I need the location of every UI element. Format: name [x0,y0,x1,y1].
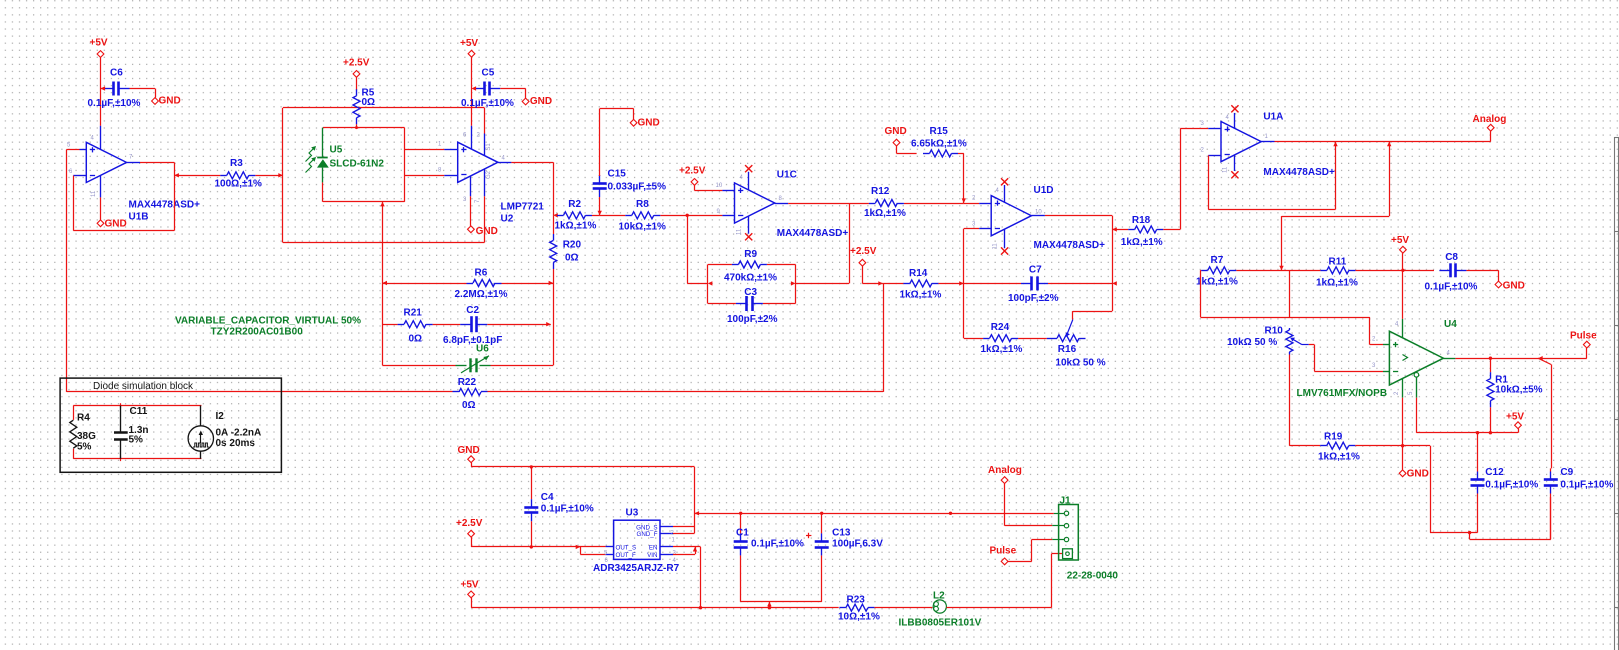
svg-text:GND: GND [159,96,181,107]
svg-text:+2.5V: +2.5V [850,246,877,257]
wire U2 +in [405,149,458,151]
svg-text:R22: R22 [458,377,477,388]
svg-text:10kΩ,±5%: 10kΩ,±5% [1495,384,1543,395]
wire R16 wiper path [1073,311,1113,320]
svg-text:R19: R19 [1324,432,1343,443]
R8 labels [619,199,667,232]
power terminal +2.5V (R5) [343,58,370,91]
svg-text:100pF,±2%: 100pF,±2% [727,314,778,325]
R19 labels [1318,432,1360,463]
op-amp U1A [1221,122,1261,162]
svg-text:0Ω: 0Ω [362,97,376,108]
capacitor C8 [1439,263,1498,281]
svg-text:C12: C12 [1485,467,1504,478]
C1 labels [736,527,804,549]
R14 labels [900,268,942,301]
U1A -in wire [1208,142,1337,210]
junction C1 rail [695,511,700,515]
RC box verticals [708,265,796,304]
C5 labels [461,68,514,109]
svg-text:6.8pF,±0.1pF: 6.8pF,±0.1pF [443,335,502,346]
ground GND (C6) [152,96,181,107]
C13 plus [806,533,811,538]
vertical U5 ladder [382,202,384,365]
svg-text:1kΩ,±1%: 1kΩ,±1% [1318,452,1360,463]
C4 labels [541,492,594,515]
C8 labels [1425,252,1478,293]
svg-text:11: 11 [91,190,97,197]
ground GND (C8) [1495,281,1525,292]
R5 labels [362,88,376,108]
diode block box [60,378,281,472]
svg-text:R7: R7 [1211,255,1224,266]
svg-text:11: 11 [1223,166,1229,173]
resistor R23 [839,604,932,611]
svg-text:10kΩ 50 %: 10kΩ 50 % [1055,358,1105,369]
wire L2 to J1 [1052,554,1063,608]
U3 labels [593,508,680,575]
svg-text:U2: U2 [501,214,514,225]
svg-text:GND: GND [476,226,498,237]
junction R18 [1112,227,1117,231]
power terminal +2.5V (R14) [850,246,883,285]
U1D pin labels [972,188,1042,250]
svg-text:TZY2R200AC01B00: TZY2R200AC01B00 [211,327,304,338]
R21 labels [404,308,423,345]
+5V row U4 [1416,431,1518,434]
U3 pins right [660,527,673,555]
R16 labels [1055,344,1105,369]
power terminal +2.5V (U3) [456,518,483,547]
U4 output [1443,358,1586,360]
svg-text:U1B: U1B [129,212,149,223]
svg-text:+5V: +5V [1391,235,1409,246]
U1C pin labels [716,175,783,235]
resistor R15 [923,150,964,157]
resistor R4 [70,413,96,453]
svg-text:1kΩ,±1%: 1kΩ,±1% [1316,278,1358,289]
svg-text:U1A: U1A [1263,112,1283,123]
svg-text:GND: GND [1503,281,1525,292]
wire U1A tap down [1279,142,1389,271]
wire U1B +in [67,149,87,151]
OUT_F jog [580,547,605,555]
current source I2 [188,406,261,459]
photodiode U5 [317,128,329,183]
U6 label [476,344,489,355]
resistor R1 [1487,358,1494,433]
potentiometer R10 [1286,328,1390,372]
svg-text:S1: S1 [486,143,492,151]
resistor R6 [382,280,553,287]
wire U1B feedback [73,162,174,230]
svg-text:1kΩ,±1%: 1kΩ,±1% [555,221,597,232]
svg-text:R14: R14 [909,268,928,279]
wire left tall [66,150,68,392]
U1B pin labels [67,135,133,197]
capacitor C11 [114,406,149,459]
svg-text:0A -2.2nA: 0A -2.2nA [216,428,262,439]
U1C top pin [745,165,752,190]
capacitor C4 [524,467,538,547]
wire R10 top [1289,270,1291,317]
svg-text:U6: U6 [476,344,489,355]
svg-text:OUT_S: OUT_S [616,545,637,552]
resistor R19 [1314,442,1403,449]
svg-text:R2: R2 [568,199,581,210]
svg-text:R10: R10 [1265,326,1284,337]
R15 labels [911,126,967,149]
U4 pin labels [1372,322,1451,396]
svg-text:C3: C3 [744,287,757,298]
wire R14 node down [883,283,885,392]
svg-text:38G: 38G [77,431,96,442]
C13 labels [832,527,883,549]
R12 labels [864,186,906,219]
svg-text:R16: R16 [1058,344,1077,355]
U1B pin4 lead [100,126,102,150]
svg-text:MAX4478ASD+: MAX4478ASD+ [1263,167,1335,178]
C15 labels [608,168,667,192]
wire U1B -in lead [73,175,86,177]
terminal Pulse (top) [1570,331,1597,359]
U2 pin7/G2 [484,169,486,242]
svg-text:C1: C1 [736,527,749,538]
resistor R2 [557,212,600,219]
U3 pin numbers [604,531,677,565]
U5 box [323,126,405,202]
svg-text:1kΩ,±1%: 1kΩ,±1% [864,208,906,219]
wire R11-C8 [1401,269,1434,272]
R7 labels [1196,255,1238,287]
svg-text:VARIABLE_CAPACITOR_VIRTUAL 50: VARIABLE_CAPACITOR_VIRTUAL 50% [175,316,361,327]
svg-text:ILBB0805ER101V: ILBB0805ER101V [899,618,982,629]
resistor R12 [849,200,964,207]
svg-text:+5V: +5V [90,38,108,49]
svg-text:U4: U4 [1444,319,1457,330]
wire to U1D + [964,203,991,205]
U1A labels [1263,112,1335,179]
junction U1B out [174,173,179,177]
svg-text:ADR3425ARJZ-R7: ADR3425ARJZ-R7 [593,563,680,574]
U2 pin3 gnd [470,176,472,226]
U1D bottom pin [1001,229,1008,255]
junction R1 top [1489,357,1492,360]
svg-text:0s 20ms: 0s 20ms [216,438,256,449]
guard ring box [283,108,485,243]
U2 pin2/S1 [484,108,486,156]
gnd row U3 [471,465,694,468]
ground GND (R15) [885,126,917,153]
svg-text:0.1µF,±10%: 0.1µF,±10% [1425,281,1478,292]
svg-text:U5: U5 [330,145,343,156]
C3 labels [727,287,778,325]
resistor R20 [550,215,557,283]
svg-text:R21: R21 [404,308,423,319]
svg-text:R6: R6 [475,267,488,278]
U1D -in wire [964,229,992,339]
wire R18 up [1180,129,1221,230]
svg-text:1kΩ,±1%: 1kΩ,±1% [1196,276,1238,287]
svg-text:0Ω: 0Ω [462,400,476,411]
svg-text:0Ω: 0Ω [409,334,423,345]
svg-text:1kΩ,±1%: 1kΩ,±1% [1121,237,1163,248]
wire gnd chain [1403,446,1478,533]
U1C output [775,203,850,284]
svg-text:EN: EN [649,545,658,552]
U2 labels [501,202,545,225]
wire C9 bottom path [1470,497,1551,540]
connector J1 [1052,505,1078,561]
diagonal wire [1538,358,1551,468]
svg-text:R15: R15 [930,126,949,137]
svg-text:+2.5V: +2.5V [679,166,706,177]
svg-text:+5V: +5V [460,38,478,49]
R6 labels [455,267,508,300]
svg-text:C4: C4 [541,492,554,503]
sheet border [1614,137,1619,650]
svg-text:Pulse: Pulse [990,545,1017,556]
svg-text:10kΩ,±1%: 10kΩ,±1% [619,221,667,232]
rail C1 bottom [741,602,822,608]
svg-text:0.033µF,±5%: 0.033µF,±5% [608,182,667,193]
svg-text:C13: C13 [832,527,851,538]
C12 labels [1485,467,1538,491]
R3 labels [215,158,263,189]
svg-text:Pulse: Pulse [1570,331,1597,342]
terminal Analog (J1) [988,465,1052,526]
svg-text:J1: J1 [1060,495,1072,506]
svg-text:GND: GND [885,126,907,137]
svg-text:470kΩ,±1%: 470kΩ,±1% [724,273,777,284]
wire -in vert U1C [687,215,708,283]
svg-text:U1D: U1D [1034,185,1054,196]
resistor R24 [964,335,1047,342]
resistor R22 [67,388,884,395]
svg-text:LMP7721: LMP7721 [501,202,545,213]
svg-text:L2: L2 [933,591,945,602]
junction U5 box bottom [380,202,384,207]
U2 output [498,162,554,215]
resistor R11 [1282,267,1403,274]
J1 labels [1060,495,1119,581]
svg-text:LMV761MFX/NOPB: LMV761MFX/NOPB [1297,388,1388,399]
capacitor C6 [101,82,156,98]
svg-text:R8: R8 [636,199,649,210]
junction C7 row [1112,281,1117,285]
svg-text:0.1µF,±10%: 0.1µF,±10% [461,98,514,109]
U4 bottom pin a [1402,379,1404,470]
U3 pin names [616,524,658,559]
U1A bottom pin [1231,155,1238,178]
op-amp U1D [991,196,1031,236]
power terminal +5V (R1) [1506,412,1524,433]
U1D output [1031,216,1112,312]
R1 labels [1495,375,1543,396]
U1C labels [777,170,849,240]
svg-text:C2: C2 [466,305,479,316]
U3 gnd wires [673,467,695,534]
svg-text:0.1µF,±10%: 0.1µF,±10% [88,98,141,109]
svg-text:R18: R18 [1132,215,1151,226]
svg-text:0.1µF,±10%: 0.1µF,±10% [1485,480,1538,491]
capacitor C15 [593,175,607,215]
vertical R20 ladder [553,283,555,365]
R23 labels [838,594,880,622]
svg-text:C5: C5 [482,68,495,79]
svg-text:C8: C8 [1445,252,1458,263]
svg-text:MAX4478ASD+: MAX4478ASD+ [1034,240,1106,251]
junction RC right [791,281,796,285]
L2 labels [899,591,982,629]
R9 labels [724,249,777,284]
ground GND (U3) [458,445,480,467]
junction R14 row [959,281,964,285]
svg-text:Analog: Analog [1473,114,1507,125]
power terminal +5V (C5) [460,38,478,126]
svg-text:R11: R11 [1329,257,1347,268]
svg-text:100µF,6.3V: 100µF,6.3V [832,539,883,550]
wire R8 to U1C [687,215,734,217]
R18 labels [1121,215,1163,248]
U3 box [614,520,660,559]
U2 pin labels [438,133,506,203]
svg-text:I2: I2 [216,411,225,422]
C15 top wire [600,109,634,177]
op-amp U2 [458,142,498,182]
svg-text:11: 11 [737,228,743,235]
svg-text:10Ω,±1%: 10Ω,±1% [838,612,880,623]
R11 labels [1316,257,1358,289]
U4 labels [1297,319,1458,399]
resistor R18 [1112,226,1180,233]
ground GND (U1B) [97,219,127,230]
svg-text:10: 10 [1035,210,1042,216]
svg-text:5%: 5% [129,435,144,446]
U1A output [1261,141,1491,143]
svg-text:C9: C9 [1560,467,1573,478]
U1B gnd pin [100,176,102,220]
R22 labels [458,377,477,411]
svg-text:Analog: Analog [988,465,1022,476]
svg-text:OUT_F: OUT_F [616,552,637,559]
resistor R5 [353,89,360,127]
svg-text:VIN: VIN [647,552,657,559]
capacitor C7 [964,276,1112,290]
svg-text:+5V: +5V [1506,412,1524,423]
U1D labels [1034,185,1106,251]
capacitor C5 [472,82,526,99]
svg-text:100pF,±2%: 100pF,±2% [1008,293,1059,304]
svg-text:GND: GND [638,117,660,128]
svg-text:0.1µF,±10%: 0.1µF,±10% [1560,480,1613,491]
annotation variable capacitor [175,316,361,338]
wire R7 to U4+ [1200,270,1389,344]
svg-text:R3: R3 [230,158,243,169]
junction pulse [1538,356,1543,360]
svg-text:U1C: U1C [777,170,797,181]
capacitor C2 [452,316,551,332]
junction R2 row [553,213,558,217]
svg-text:11: 11 [993,243,999,250]
svg-text:MAX4478ASD+: MAX4478ASD+ [777,228,849,239]
terminal Pulse (J1) [990,540,1053,565]
power terminal +5V (U1B) [90,38,108,126]
svg-text:1kΩ,±1%: 1kΩ,±1% [900,290,942,301]
svg-text:0.1µF,±10%: 0.1µF,±10% [751,539,804,550]
svg-text:R23: R23 [847,594,866,605]
capacitor C1 [734,513,748,602]
svg-text:2.2MΩ,±1%: 2.2MΩ,±1% [455,289,508,300]
junction R8-U1C [686,214,689,217]
svg-text:+2.5V: +2.5V [343,58,370,69]
op-amp U1B [86,142,126,182]
capacitor C9 [1544,468,1558,539]
comparator U4 [1389,331,1443,385]
svg-text:G2: G2 [486,170,492,179]
svg-text:5%: 5% [77,442,92,453]
U3 pins left [606,547,614,555]
resistor R21 [382,321,452,328]
svg-text:Diode simulation block: Diode simulation block [93,381,194,392]
C7 labels [1008,265,1059,305]
power terminal +5V (U4) [1391,235,1409,319]
C9 labels [1560,467,1613,491]
svg-text:R20: R20 [563,239,582,250]
R10 labels [1227,326,1283,348]
svg-text:C6: C6 [110,68,123,79]
U5 labels [330,145,385,170]
resistor R3 [174,172,283,179]
svg-text:MAX4478ASD+: MAX4478ASD+ [129,200,201,211]
R24 labels [981,322,1023,355]
svg-text:+5V: +5V [461,579,479,590]
wire U2 -in [405,175,458,177]
U1A top pin [1231,105,1238,128]
power terminal +2.5V (U1C) [679,166,735,191]
op-amp U1C [735,183,775,223]
capacitor C12 [1471,433,1485,533]
variable capacitor U6 [382,356,553,373]
svg-text:10kΩ 50 %: 10kΩ 50 % [1227,337,1277,348]
svg-text:22-28-0040: 22-28-0040 [1067,571,1119,582]
+2.5V row U3 [471,545,605,549]
U1B output lead [127,162,175,164]
U1B labels [129,200,201,223]
junction RC left [708,281,713,285]
svg-text:10: 10 [716,183,723,189]
svg-text:GND: GND [458,445,480,456]
capacitor C13 [815,513,829,602]
ground GND (C5) [522,96,552,107]
U1A pin labels [1201,115,1269,173]
svg-text:100Ω,±1%: 100Ω,±1% [215,178,263,189]
U1C bottom pin [745,216,752,240]
ferrite bead L2 [933,600,1051,613]
svg-text:R12: R12 [871,186,890,197]
svg-text:R24: R24 [991,322,1010,333]
resistor R8 [600,212,688,219]
U4 top pin [1402,319,1404,338]
svg-text:GND: GND [530,96,552,107]
potentiometer R16 [1047,320,1086,342]
junction R3-box [278,173,283,177]
R15 down wire [962,153,966,203]
svg-text:GND: GND [1407,469,1429,480]
R20 labels [563,239,582,263]
ground GND (U4) [1399,444,1429,480]
svg-text:0.1µF,±10%: 0.1µF,±10% [541,504,594,515]
